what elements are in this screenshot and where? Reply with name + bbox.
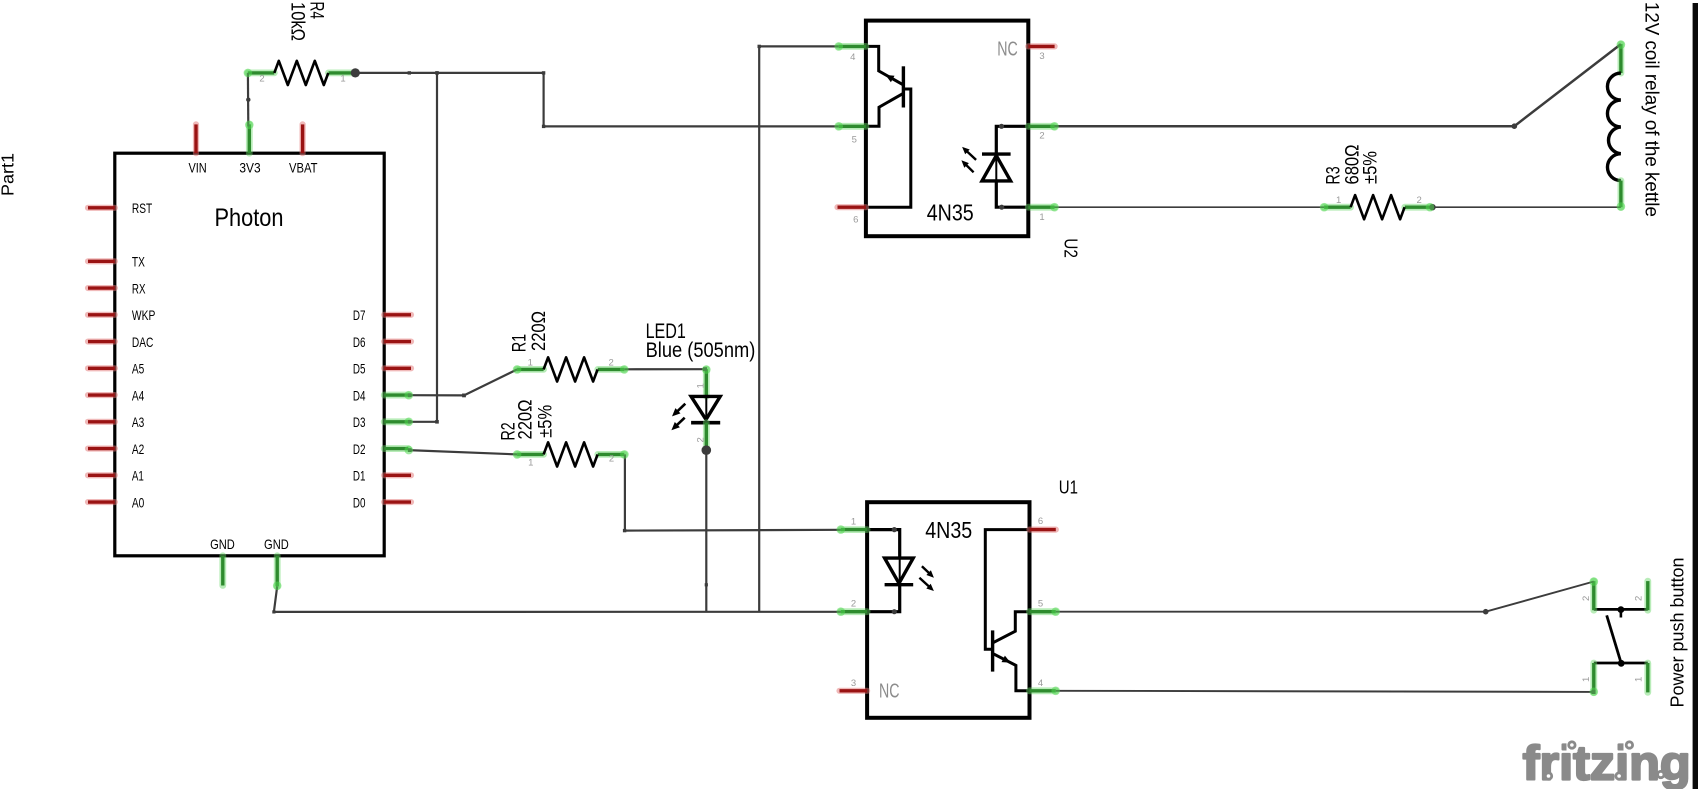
U2 transistor bar xyxy=(902,66,905,107)
connection glow xyxy=(620,450,629,459)
svg-text:1: 1 xyxy=(340,74,345,85)
svg-text:R3: R3 xyxy=(1324,166,1345,184)
bendpoint xyxy=(408,420,412,424)
connection glow xyxy=(245,121,254,130)
U2 LED arrow b xyxy=(965,164,974,173)
pin D2 (green stub) xyxy=(384,445,408,452)
U1 transistor collector xyxy=(993,612,1030,643)
push button bottom rail xyxy=(1594,662,1648,665)
svg-text:4N35: 4N35 xyxy=(925,517,972,543)
U1 internal LED triangle xyxy=(885,558,914,583)
bendpoint xyxy=(435,420,439,424)
U2 pin 1 (green stub) xyxy=(1028,204,1054,211)
svg-text:NC: NC xyxy=(879,681,900,703)
svg-text:2: 2 xyxy=(608,357,613,368)
pin D4 (green stub) xyxy=(384,392,408,399)
svg-text:2: 2 xyxy=(696,437,707,442)
svg-text:D4: D4 xyxy=(353,387,366,403)
svg-text:4: 4 xyxy=(1038,678,1043,689)
svg-text:1: 1 xyxy=(528,357,533,368)
pin GND1 (green stub) xyxy=(219,556,226,586)
U1 pin 2 (green stub) xyxy=(841,608,867,615)
svg-text:3V3: 3V3 xyxy=(239,160,260,176)
wire U1.4 to button xyxy=(1056,691,1594,692)
svg-text:DAC: DAC xyxy=(132,334,154,350)
pin D6 (red stub) xyxy=(384,338,411,344)
wire U1.5 to button xyxy=(1056,582,1594,612)
U2 pin 5 (green stub) xyxy=(839,123,866,130)
U1 transistor emitter xyxy=(993,653,1030,690)
bendpoint xyxy=(462,394,466,398)
svg-text:NC: NC xyxy=(997,39,1018,61)
svg-text:WKP: WKP xyxy=(132,307,155,323)
pin A2 (red stub) xyxy=(88,445,115,451)
microcontroller Part1 (Photon) body xyxy=(115,153,384,556)
junction node LED1-R2-GND xyxy=(702,445,712,455)
svg-text:1: 1 xyxy=(1336,195,1341,206)
pin RX (red stub) xyxy=(88,285,115,291)
bendpoint xyxy=(408,393,412,397)
pin RST (red stub) xyxy=(88,205,115,211)
wire U2.2 to coil top xyxy=(1055,44,1621,126)
U1 transistor base xyxy=(985,530,1029,650)
resistor R3 xyxy=(1324,204,1351,211)
U2 pin 4 (green stub) xyxy=(839,43,866,50)
pin GND2 (green stub) xyxy=(274,556,281,587)
U2 internal LED cathode bar xyxy=(982,152,1011,155)
bendpoint xyxy=(542,71,545,74)
push button actuator stem xyxy=(1620,609,1623,617)
svg-text:A5: A5 xyxy=(132,361,145,377)
svg-text:220Ω: 220Ω xyxy=(516,400,537,440)
bendpoint xyxy=(542,125,545,128)
svg-text:VIN: VIN xyxy=(188,160,206,176)
svg-text:6: 6 xyxy=(1038,516,1043,527)
connection glow xyxy=(513,365,522,374)
resistor R2 xyxy=(517,451,544,458)
svg-text:Blue (505nm): Blue (505nm) xyxy=(646,338,756,362)
wire R3.2 to coil bottom xyxy=(1431,206,1621,208)
svg-text:3: 3 xyxy=(1039,51,1044,62)
wire D3 branch xyxy=(408,73,437,422)
pin A4 (red stub) xyxy=(88,392,115,398)
pin D0 (red stub) xyxy=(384,499,411,505)
bendpoint xyxy=(408,448,412,452)
LED1 cathode bar xyxy=(691,421,720,425)
wire GND2 to U1.2 xyxy=(274,586,841,612)
connection glow xyxy=(1051,687,1060,696)
U1 LED arrow a xyxy=(922,566,931,574)
svg-text:D2: D2 xyxy=(353,441,366,457)
optocoupler U1 body xyxy=(867,502,1029,718)
endpoint xyxy=(703,367,707,371)
U1 pin 6 (red stub) xyxy=(1030,526,1056,532)
U2 internal LED conductor xyxy=(995,154,997,181)
svg-text:4N35: 4N35 xyxy=(927,200,974,226)
wire D2 to R2.1 xyxy=(408,450,517,454)
push button top contact dot xyxy=(1618,606,1625,613)
svg-text:1: 1 xyxy=(1581,677,1592,682)
bendpoint xyxy=(408,71,411,74)
bendpoint xyxy=(1512,123,1518,129)
bendpoint xyxy=(435,71,439,75)
svg-text:2: 2 xyxy=(1039,130,1044,141)
svg-text:U1: U1 xyxy=(1059,476,1078,497)
svg-text:RX: RX xyxy=(132,280,146,296)
U1 internal LED cathode wire xyxy=(867,585,900,612)
U1 internal LED anode wire xyxy=(867,530,900,559)
U2 LED arrow a xyxy=(966,150,976,160)
pin VIN (red stub) xyxy=(193,124,199,153)
pin TX (red stub) xyxy=(88,258,115,264)
inductor coil pin bottom (green) xyxy=(1618,181,1625,208)
U2 internal LED cathode wire xyxy=(996,181,1028,207)
inductor coil arcs xyxy=(1607,73,1620,181)
svg-text:1: 1 xyxy=(696,383,707,388)
wire U2.4 down to GND net xyxy=(759,46,839,611)
U1 LED arrow b xyxy=(919,578,930,588)
svg-text:D7: D7 xyxy=(353,307,366,323)
connection glow xyxy=(244,69,253,78)
svg-text:VBAT: VBAT xyxy=(289,160,318,176)
bendpoint xyxy=(272,610,275,613)
U2 internal LED anode wire xyxy=(996,126,1028,154)
svg-text:1: 1 xyxy=(851,517,856,528)
node R3.2 junction xyxy=(1429,204,1435,210)
svg-text:A1: A1 xyxy=(132,468,144,484)
U2 pin 6 (red stub NC) xyxy=(838,204,866,210)
svg-text:5: 5 xyxy=(1038,599,1043,610)
wire U2.1 to R3.1 xyxy=(1055,206,1325,208)
connection glow xyxy=(1590,577,1599,586)
LED1 arrow b xyxy=(675,418,684,427)
resistor R4 xyxy=(248,70,274,77)
connection glow xyxy=(837,525,846,534)
LED1 arrow a xyxy=(676,404,685,413)
pin A1 (red stub) xyxy=(88,472,115,478)
fritzing logo ring n xyxy=(1658,771,1664,777)
fritzing logo ring z xyxy=(1616,773,1622,779)
svg-text:2: 2 xyxy=(609,454,614,465)
U2 transistor base xyxy=(866,89,911,207)
svg-text:D3: D3 xyxy=(353,414,366,430)
wire R4.2 to 3V3 xyxy=(247,73,250,127)
connection glow xyxy=(1051,607,1060,616)
svg-text:1: 1 xyxy=(1039,212,1044,223)
svg-text:2: 2 xyxy=(259,74,264,85)
connection glow xyxy=(1050,203,1059,212)
U1 pin 3 (red stub NC) xyxy=(840,688,868,694)
U2 emitter arrow xyxy=(890,78,902,85)
pin DAC (red stub) xyxy=(88,338,115,344)
connection glow xyxy=(513,450,522,459)
push button movable contact xyxy=(1607,615,1622,663)
connection glow xyxy=(1320,203,1329,212)
connection glow xyxy=(405,418,414,427)
svg-text:1: 1 xyxy=(528,458,533,469)
connection glow xyxy=(620,365,629,374)
svg-text:Part1: Part1 xyxy=(0,153,18,196)
connection glow xyxy=(834,42,843,51)
svg-text:3: 3 xyxy=(851,678,856,689)
connection glow xyxy=(1050,122,1059,131)
pin VBAT (red stub) xyxy=(300,124,306,153)
node R4.1 junction xyxy=(351,68,360,77)
inductor coil pin top (green) xyxy=(1618,44,1625,73)
fritzing logo ring r xyxy=(1545,773,1551,779)
push button bottom contact dot xyxy=(1618,660,1625,667)
optocoupler U2 body xyxy=(866,21,1028,237)
U2 transistor emitter xyxy=(866,46,904,85)
push button terminal 2a (green) xyxy=(1590,581,1597,610)
svg-text:RST: RST xyxy=(132,200,153,216)
pin D5 (red stub) xyxy=(384,365,411,371)
fritzing logo ring i1 xyxy=(1569,742,1575,748)
U1 pin 4 (green stub) xyxy=(1030,687,1056,694)
connection glow xyxy=(1590,688,1599,697)
svg-text:1: 1 xyxy=(1633,677,1644,682)
wire R1.2 to LED1.1 xyxy=(624,368,705,370)
U1 pin 1 (green stub) xyxy=(841,526,867,533)
wire R2.2 to U1.1 xyxy=(625,454,841,530)
bendpoint xyxy=(246,98,250,102)
svg-text:±5%: ±5% xyxy=(536,405,557,438)
svg-text:±5%: ±5% xyxy=(1361,151,1382,184)
svg-text:U2: U2 xyxy=(1061,238,1082,258)
connection glow xyxy=(834,122,843,131)
wire D4 to R1.1 xyxy=(408,369,517,395)
U2 internal dot xyxy=(999,124,1004,129)
connection glow xyxy=(1426,203,1435,212)
U1 internal dot xyxy=(892,527,897,532)
push button top rail xyxy=(1594,608,1648,611)
push button terminal 1a (green) xyxy=(1590,663,1597,692)
U2 pin 3 (red stub) xyxy=(1028,43,1054,49)
svg-text:A0: A0 xyxy=(132,494,145,510)
svg-text:A2: A2 xyxy=(132,441,145,457)
LED1 pin 2 (green) xyxy=(703,423,710,451)
connection glow xyxy=(405,446,414,455)
svg-text:Power push button: Power push button xyxy=(1667,558,1688,708)
svg-text:fritzing: fritzing xyxy=(1523,738,1691,789)
svg-text:5: 5 xyxy=(852,134,857,145)
U2 pin 2 (green stub) xyxy=(1028,123,1054,130)
svg-text:2: 2 xyxy=(851,599,856,610)
svg-text:D5: D5 xyxy=(353,361,366,377)
svg-text:12V coil relay of the kettle: 12V coil relay of the kettle xyxy=(1641,2,1662,217)
svg-text:A4: A4 xyxy=(132,387,145,403)
connection glow xyxy=(1617,202,1626,211)
U1 emitter arrow xyxy=(994,654,1006,660)
svg-text:TX: TX xyxy=(132,254,145,270)
svg-text:D6: D6 xyxy=(353,334,366,350)
pin D7 (red stub) xyxy=(384,312,411,318)
pin D3 (green stub) xyxy=(384,418,408,425)
bendpoint xyxy=(623,529,626,532)
pin 3V3 (green stub) xyxy=(246,124,253,153)
svg-text:2: 2 xyxy=(1633,596,1644,601)
connection glow xyxy=(405,391,414,400)
svg-text:10kΩ: 10kΩ xyxy=(286,2,307,41)
svg-text:D0: D0 xyxy=(353,494,366,510)
U1 pin 5 (green stub) xyxy=(1030,608,1056,615)
svg-text:GND: GND xyxy=(264,536,289,552)
svg-text:2: 2 xyxy=(1417,195,1422,206)
svg-text:6: 6 xyxy=(853,214,858,225)
svg-text:4: 4 xyxy=(850,52,855,63)
connection glow xyxy=(837,607,846,616)
U1 internal LED cathode bar xyxy=(885,583,914,586)
svg-text:R4: R4 xyxy=(305,2,326,20)
push button terminal 2b (green) xyxy=(1644,581,1651,610)
connection glow xyxy=(1617,40,1626,49)
wire R4.1 to U2.5 xyxy=(355,73,838,127)
pin A0 (red stub) xyxy=(88,499,115,505)
svg-text:Photon: Photon xyxy=(215,204,284,232)
bendpoint xyxy=(758,45,761,48)
svg-text:R1: R1 xyxy=(509,334,530,352)
U2 internal LED triangle xyxy=(982,156,1011,181)
svg-text:A3: A3 xyxy=(132,414,145,430)
connection glow xyxy=(702,365,711,374)
LED1 triangle xyxy=(691,396,720,419)
pin A5 (red stub) xyxy=(88,365,115,371)
svg-text:D1: D1 xyxy=(353,468,366,484)
wire LED1.2 to GND net xyxy=(705,450,707,612)
U1 internal dot xyxy=(892,609,897,614)
connection glow xyxy=(273,582,282,591)
pin WKP (red stub) xyxy=(88,312,115,318)
U2 transistor collector xyxy=(866,93,904,126)
bendpoint xyxy=(705,583,708,586)
fritzing logo i-dot covers xyxy=(1567,738,1578,752)
LED1 pin 1 (green) xyxy=(703,369,710,396)
svg-text:220Ω: 220Ω xyxy=(529,311,550,351)
resistor R1 xyxy=(517,366,544,373)
U2 internal dot xyxy=(999,205,1004,210)
U1 transistor bar xyxy=(991,630,994,671)
svg-text:2: 2 xyxy=(1581,596,1592,601)
endpoint xyxy=(1591,690,1595,694)
pin D1 (red stub) xyxy=(384,472,411,478)
bendpoint xyxy=(1483,609,1489,615)
pin A3 (red stub) xyxy=(88,419,115,425)
U1 internal LED conductor xyxy=(899,558,901,585)
push button terminal 1b (green) xyxy=(1644,663,1651,692)
window edge bar xyxy=(1693,3,1698,789)
fritzing logo ring i2 xyxy=(1626,742,1632,748)
svg-text:GND: GND xyxy=(210,536,235,552)
LED1 conductor xyxy=(705,396,707,422)
